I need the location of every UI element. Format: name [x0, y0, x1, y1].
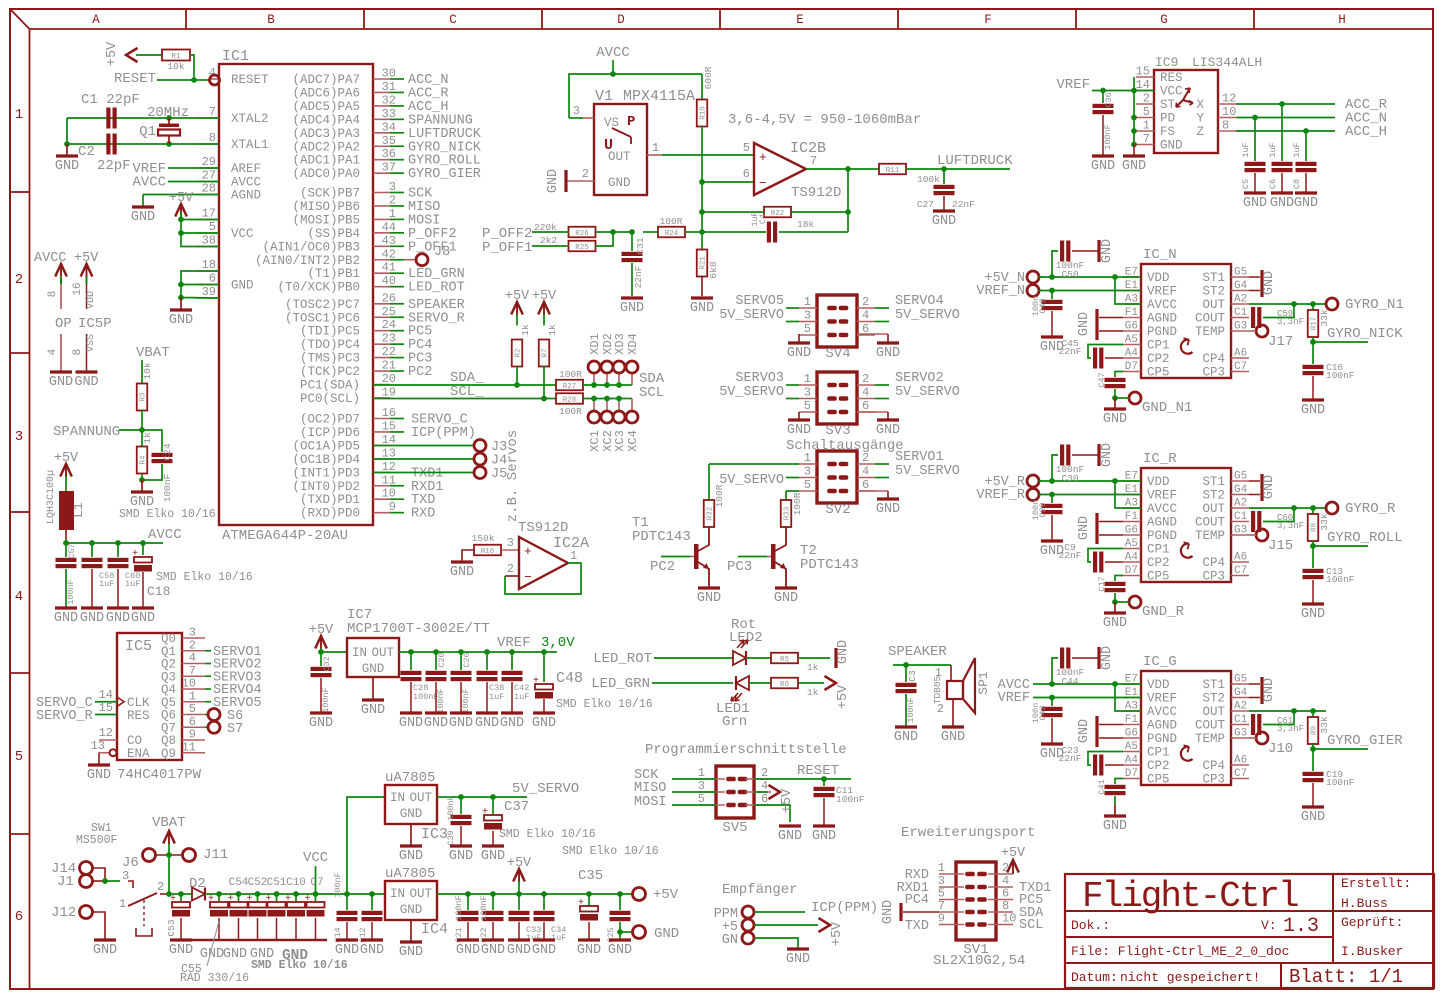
ground (C38): [475, 713, 499, 731]
elko rail bar: [170, 939, 327, 942]
svg-text:100R: 100R: [660, 216, 683, 227]
svg-text:A6: A6: [1234, 755, 1247, 767]
pad PPM: [714, 906, 754, 922]
svg-text:(ADC3)PA3: (ADC3)PA3: [292, 127, 360, 141]
svg-text:TDB05: TDB05: [932, 675, 943, 704]
svg-text:23: 23: [382, 332, 396, 346]
svg-text:LUFTDRUCK: LUFTDRUCK: [937, 153, 1013, 169]
ground (C39): [449, 846, 473, 864]
svg-text:R28: R28: [563, 396, 577, 404]
ground (C27): [932, 211, 956, 229]
wire v1 out to opamp: [662, 154, 754, 156]
pad +5V_R: [984, 475, 1141, 490]
junction IC_N gnd pad: [1112, 395, 1118, 401]
capacitor C60 3,3nF: [1249, 508, 1304, 532]
svg-text:(TOSC2)PC7: (TOSC2)PC7: [285, 298, 360, 312]
pad GND_N1: [1115, 392, 1192, 416]
svg-text:CP5: CP5: [1147, 570, 1170, 584]
svg-text:H: H: [1338, 13, 1346, 27]
svg-text:G4: G4: [1234, 484, 1248, 496]
svg-text:11: 11: [382, 473, 396, 487]
net label SPEAKER: [888, 644, 951, 665]
wire IC_N out: [1249, 303, 1326, 305]
svg-text:GND: GND: [1103, 412, 1127, 427]
svg-text:(TDO)PC4: (TDO)PC4: [300, 338, 360, 352]
svg-text:COUT: COUT: [1195, 312, 1226, 326]
svg-text:G: G: [1160, 13, 1168, 27]
ground (IC3): [399, 824, 423, 864]
ground (C53): [169, 940, 193, 958]
capacitor C26 100nF: [451, 652, 473, 714]
resistor R5 1k: [771, 653, 819, 673]
svg-text:D7: D7: [1125, 361, 1138, 373]
wire 5v_servo rail: [437, 781, 579, 797]
svg-text:A5: A5: [1125, 741, 1138, 753]
net label LED_GRN: [591, 676, 733, 692]
svg-text:LQH3C100µ: LQH3C100µ: [46, 470, 57, 524]
svg-text:GND: GND: [1077, 312, 1092, 336]
svg-text:IC1: IC1: [222, 48, 249, 65]
svg-text:3: 3: [507, 536, 514, 550]
svg-text:7: 7: [209, 105, 216, 119]
ground (empf): [786, 949, 810, 967]
pad VREF_N: [976, 284, 1141, 299]
svg-text:Grn: Grn: [722, 714, 747, 730]
svg-text:C5: C5: [1241, 179, 1251, 189]
svg-text:42: 42: [382, 247, 396, 261]
junction IC_G out a: [1291, 708, 1297, 714]
svg-text:(ADC6)PA6: (ADC6)PA6: [292, 86, 360, 100]
junction C33: [516, 891, 522, 897]
svg-text:ST1: ST1: [1202, 271, 1225, 285]
svg-text:4: 4: [47, 348, 59, 355]
pad GYRO_R: [1326, 501, 1396, 517]
svg-text:LED_ROT: LED_ROT: [408, 281, 465, 296]
svg-text:R8: R8: [1311, 523, 1319, 532]
capacitor C12 100nF: [358, 894, 383, 943]
ground (C21): [456, 940, 480, 958]
svg-text:TXD: TXD: [905, 919, 929, 934]
ground (C6): [1270, 193, 1294, 211]
junction avcc v1: [610, 71, 616, 77]
svg-text:100nF: 100nF: [836, 794, 865, 805]
svg-text:1: 1: [15, 107, 23, 123]
net label MOSI (sv5): [634, 795, 716, 810]
wire ic3 in: [347, 797, 385, 894]
svg-text:GYRO_N1: GYRO_N1: [1345, 297, 1404, 313]
pad J1: [57, 874, 105, 890]
svg-text:74HC4017PW: 74HC4017PW: [117, 767, 202, 783]
svg-text:C20: C20: [437, 652, 447, 667]
svg-text:100nF: 100nF: [454, 895, 464, 921]
junction gnd a: [178, 282, 184, 288]
svg-text:9: 9: [938, 912, 945, 926]
capacitor C6 1uF: [1268, 104, 1293, 192]
svg-text:GND: GND: [481, 849, 505, 864]
svg-text:GN: GN: [722, 933, 738, 948]
svg-text:VREF: VREF: [1147, 285, 1177, 299]
svg-text:PGND: PGND: [1147, 732, 1177, 746]
capacitor C45 22nF: [1059, 338, 1123, 369]
wire sw pin3: [105, 869, 133, 888]
capacitor C44 100nF: [1052, 648, 1098, 688]
svg-text:+5V: +5V: [105, 41, 120, 66]
junction elko C54: [236, 891, 242, 897]
svg-text:1uF: 1uF: [1241, 142, 1251, 157]
capacitor C27 22nF: [917, 169, 975, 210]
svg-text:GND: GND: [169, 313, 193, 328]
svg-text:AREF: AREF: [231, 162, 261, 176]
wire r6 arrow: [798, 682, 824, 684]
switch SW1: [119, 880, 169, 936]
resistor R27 100R: [556, 369, 583, 391]
capacitor C29: [1031, 495, 1063, 541]
svg-text:1: 1: [119, 897, 126, 911]
ground (J12): [93, 940, 117, 958]
svg-text:SMD Elko 10/16: SMD Elko 10/16: [251, 959, 348, 972]
svg-text:1k: 1k: [547, 324, 558, 336]
ground (C57): [54, 608, 78, 626]
capacitor C18 elko: [132, 543, 253, 607]
svg-text:3,3nF: 3,3nF: [1277, 521, 1304, 531]
svg-text:RAD 330/16: RAD 330/16: [180, 972, 249, 985]
junction avcc rail 4: [140, 540, 146, 546]
svg-text:OUT: OUT: [608, 150, 631, 164]
svg-text:MPX4115A: MPX4115A: [623, 88, 695, 105]
svg-text:VDD: VDD: [1147, 271, 1170, 285]
capacitor C22 100nF: [479, 894, 504, 943]
svg-text:C47: C47: [1097, 372, 1107, 387]
svg-text:1: 1: [652, 141, 659, 155]
pad GND (bottom): [633, 926, 680, 943]
capacitor C20 100nF: [426, 652, 448, 714]
junction xtal1: [166, 141, 172, 147]
svg-text:16: 16: [72, 282, 84, 295]
svg-text:GND: GND: [49, 375, 73, 390]
capacitor C30 100nF: [1052, 445, 1098, 485]
svg-text:GND: GND: [1301, 607, 1325, 622]
svg-text:C: C: [449, 13, 457, 27]
pad VREF_R: [976, 488, 1141, 503]
ground (C12): [360, 940, 384, 958]
svg-text:SPANNUNG: SPANNUNG: [53, 424, 120, 440]
svg-text:GND: GND: [787, 346, 811, 361]
svg-text:33: 33: [382, 107, 396, 121]
wire led1 r6: [749, 682, 771, 684]
svg-text:GND: GND: [812, 829, 836, 844]
junction scl pad3: [616, 396, 622, 402]
ground (IC5): [87, 765, 111, 783]
capacitor C53 elko: [166, 894, 190, 939]
wire reset net: [754, 763, 851, 779]
ground (R16): [450, 562, 474, 580]
svg-text:XTAL2: XTAL2: [231, 112, 269, 126]
svg-text:(MISO)PB6: (MISO)PB6: [292, 200, 360, 214]
junction IC_G vref: [1049, 695, 1055, 701]
net label AVCC (avcc pin): [132, 175, 219, 191]
resistor R25 2k2: [540, 232, 613, 252]
junction acc c6: [1279, 101, 1285, 107]
svg-text:J11: J11: [203, 847, 228, 863]
svg-text:E: E: [796, 13, 804, 27]
junction IC_R out a: [1291, 505, 1297, 511]
wire vref rail: [399, 651, 557, 653]
svg-text:(ADC0)PA0: (ADC0)PA0: [292, 167, 360, 181]
svg-text:+5V: +5V: [653, 887, 679, 903]
ground rail IC_G agnd: [1077, 716, 1123, 747]
note SMD Elko (bottom): [251, 959, 348, 972]
capacitor C50 100nF: [1052, 241, 1098, 281]
wire sda pads: [583, 384, 632, 386]
svg-text:2: 2: [507, 562, 514, 576]
wire acc_r: [1236, 97, 1388, 113]
pad stubs XD/XC: [594, 373, 632, 411]
svg-text:18k: 18k: [797, 219, 814, 230]
capacitor C57 100nF: [56, 543, 78, 607]
svg-text:(SCK)PB7: (SCK)PB7: [300, 187, 360, 201]
note Erweiterungsport: [901, 825, 1035, 841]
ground (sv5): [778, 826, 802, 844]
power symbol OP (IC2 supply): [34, 251, 73, 390]
svg-text:(T0/XCK)PB0: (T0/XCK)PB0: [277, 281, 360, 295]
pad J14: [51, 861, 105, 881]
ground (C20): [424, 713, 448, 731]
connector SV5: [698, 766, 771, 836]
svg-text:2: 2: [1143, 92, 1150, 106]
svg-text:1k: 1k: [807, 687, 819, 698]
svg-text:MCP1700T-3002E/TT: MCP1700T-3002E/TT: [347, 621, 490, 637]
wire net GYRO_ROLL: [1313, 530, 1403, 546]
svg-text:G5: G5: [1234, 471, 1247, 483]
sensor V1 MPX4115A body: [594, 88, 695, 195]
note z.B. Servos: [505, 430, 521, 522]
svg-text:Erweiterungsport: Erweiterungsport: [901, 825, 1035, 841]
net label SDA: [639, 371, 665, 387]
V1 pin1 out: [647, 141, 662, 155]
svg-text:GYRO_ROLL: GYRO_ROLL: [1327, 530, 1403, 546]
junction out: [845, 166, 851, 172]
pad J17: [1249, 325, 1293, 350]
junction scl pad1: [591, 396, 597, 402]
pad XD3: [613, 333, 627, 373]
net label SCL (sv1): [1019, 918, 1043, 933]
junction j6j11: [166, 852, 172, 858]
junction IC_N out b: [1310, 301, 1316, 307]
pad J10: [1249, 732, 1293, 757]
net label RESET: [114, 71, 156, 87]
svg-text:AGND: AGND: [231, 189, 261, 203]
junction minus: [699, 179, 705, 185]
svg-text:22nF: 22nF: [633, 265, 644, 288]
supply +5V arrow (rail): [507, 856, 532, 894]
capacitor C32 100nF: [311, 652, 333, 713]
pad +5V_N: [984, 271, 1141, 286]
svg-text:(ADC7)PA7: (ADC7)PA7: [292, 73, 360, 87]
svg-text:10: 10: [1222, 105, 1236, 119]
junction scl r7: [541, 396, 547, 402]
svg-text:V:: V:: [1261, 918, 1277, 933]
svg-text:17: 17: [202, 207, 216, 221]
wire sv5 pin6 gnd: [754, 805, 790, 822]
wire r5 gnd: [798, 657, 830, 659]
svg-text:Blatt: 1/1: Blatt: 1/1: [1289, 966, 1403, 988]
connector SV1: [933, 861, 1025, 969]
svg-text:R24: R24: [665, 230, 679, 238]
IC_G rotation icon: [1181, 745, 1193, 760]
svg-text:6: 6: [743, 167, 750, 181]
svg-text:I.Busker: I.Busker: [1341, 944, 1403, 959]
svg-text:100n: 100n: [1031, 500, 1041, 520]
svg-text:R22: R22: [771, 210, 785, 218]
net label AVCC: [998, 678, 1141, 693]
svg-text:GND: GND: [131, 611, 155, 626]
svg-text:S7: S7: [227, 722, 243, 737]
svg-text:GND: GND: [55, 159, 79, 174]
svg-text:A5: A5: [1125, 334, 1138, 346]
ground (C35): [577, 940, 601, 958]
junction j1: [102, 878, 108, 884]
ground (SP1): [941, 727, 965, 745]
svg-text:12: 12: [99, 726, 113, 740]
svg-text:+: +: [305, 894, 311, 905]
svg-text:CP5: CP5: [1147, 773, 1170, 787]
svg-text:GND: GND: [80, 611, 104, 626]
svg-text:R25: R25: [575, 244, 589, 252]
svg-text:+: +: [285, 894, 291, 905]
svg-text:100n: 100n: [1031, 296, 1041, 316]
svg-text:C3: C3: [907, 670, 918, 682]
pad +5V (bottom): [633, 887, 679, 903]
svg-text:TEMP: TEMP: [1195, 529, 1225, 543]
junction acc c5: [1252, 115, 1258, 121]
pad J15: [1249, 529, 1293, 554]
svg-text:(OC2)PD7: (OC2)PD7: [300, 413, 360, 427]
resistor R24 100R: [658, 216, 702, 238]
svg-text:27: 27: [202, 169, 216, 183]
junction sda pad1: [591, 382, 597, 388]
label C55 RAD: [180, 921, 249, 985]
svg-text:4: 4: [862, 465, 869, 479]
ground (C34): [532, 940, 556, 958]
ground (C42): [500, 713, 524, 731]
junction IC_R gnd pad: [1112, 599, 1118, 605]
svg-text:GND: GND: [932, 214, 956, 229]
pad GYRO_GIER junction note: [0, 0, 1, 1]
wire opamp out: [806, 168, 879, 170]
capacitor C33 1uF: [509, 894, 542, 943]
svg-text:C44: C44: [1061, 676, 1078, 687]
svg-text:33k: 33k: [1319, 309, 1330, 326]
capacitor C13 100nF: [1303, 546, 1355, 603]
svg-text:GND: GND: [787, 423, 811, 438]
svg-text:C6: C6: [1268, 179, 1278, 189]
svg-text:R2: R2: [515, 348, 523, 357]
junction left: [64, 141, 70, 147]
junction sda pad2: [604, 382, 610, 388]
svg-text:6: 6: [209, 272, 216, 286]
svg-text:C7: C7: [310, 877, 323, 889]
IC5 ena pin: [91, 739, 150, 764]
LED LED1 Grn: [716, 676, 750, 730]
junction vref C42: [509, 649, 515, 655]
svg-text:IC_G: IC_G: [1143, 654, 1177, 670]
transistor T2 PDTC143: [727, 527, 859, 585]
svg-text:XD4: XD4: [626, 333, 640, 355]
wire scl pads: [583, 398, 632, 400]
wire ppm: [754, 900, 878, 916]
svg-text:ICP(PPM): ICP(PPM): [811, 900, 878, 916]
crystal Q1 20MHz: [139, 105, 189, 144]
net label 3,0V: [541, 635, 575, 651]
svg-text:PGND: PGND: [1147, 325, 1177, 339]
svg-text:C41: C41: [1097, 779, 1107, 794]
supply +5V arrow (led1): [825, 676, 852, 709]
svg-text:SCL_: SCL_: [450, 384, 484, 400]
svg-text:SV2: SV2: [825, 502, 850, 518]
svg-text:ACC_H: ACC_H: [1345, 124, 1387, 140]
IC MCP1700 IC7 body: [347, 607, 490, 677]
svg-text:(INT0)PD2: (INT0)PD2: [292, 480, 360, 494]
pad XD2: [601, 333, 615, 373]
ground (C18): [131, 608, 155, 626]
svg-text:VCC: VCC: [231, 227, 254, 241]
ground (C25): [608, 932, 632, 958]
svg-text:Programmierschnittstelle: Programmierschnittstelle: [645, 742, 847, 758]
svg-text:P: P: [627, 114, 635, 130]
capacitor C41: [1097, 779, 1126, 806]
capacitor elko C10: [285, 894, 305, 939]
svg-text:SL2X10G2,54: SL2X10G2,54: [933, 953, 1025, 969]
svg-text:GND: GND: [456, 943, 480, 958]
svg-text:C26: C26: [462, 652, 472, 667]
svg-text:SP1: SP1: [976, 671, 991, 695]
capacitor C34 1uF: [534, 894, 567, 943]
junction acc c8: [1303, 128, 1309, 134]
net label SDA_: [450, 370, 484, 386]
ground (C13): [1301, 604, 1325, 622]
svg-text:File: Flight-Ctrl_ME_2_0_doc: File: Flight-Ctrl_ME_2_0_doc: [1071, 944, 1289, 959]
svg-text:100nF: 100nF: [66, 579, 76, 605]
svg-text:GND: GND: [93, 943, 117, 958]
svg-text:F1: F1: [1125, 511, 1139, 523]
svg-text:Dok.:: Dok.:: [1071, 918, 1110, 933]
svg-text:AGND: AGND: [1147, 312, 1177, 326]
svg-text:24: 24: [382, 318, 396, 332]
svg-text:R16: R16: [481, 548, 495, 556]
resistor R1 10k: [162, 50, 190, 73]
svg-text:GND: GND: [1103, 819, 1127, 834]
capacitor C16 100nF: [1303, 342, 1355, 399]
ground (C28): [399, 713, 423, 731]
svg-text:5V_SERVO: 5V_SERVO: [895, 385, 960, 400]
svg-text:A6: A6: [1234, 348, 1247, 360]
svg-text:C1: C1: [1234, 511, 1248, 523]
IC9 right pins: [1196, 92, 1236, 140]
svg-text:5: 5: [804, 478, 811, 492]
svg-text:6: 6: [862, 399, 869, 413]
svg-text:1: 1: [804, 451, 811, 465]
junction ic9 d: [1131, 142, 1137, 148]
junction IC_G vdd: [1049, 681, 1055, 687]
svg-text:SMD Elko 10/16: SMD Elko 10/16: [499, 828, 596, 841]
ground (C41): [1103, 805, 1127, 834]
net label LUFTDRUCK: [937, 153, 1013, 169]
svg-text:GND: GND: [1270, 196, 1294, 211]
svg-text:RXD: RXD: [411, 507, 435, 522]
svg-text:RES: RES: [127, 709, 150, 723]
svg-text:28: 28: [202, 182, 216, 196]
svg-text:5: 5: [743, 141, 750, 155]
